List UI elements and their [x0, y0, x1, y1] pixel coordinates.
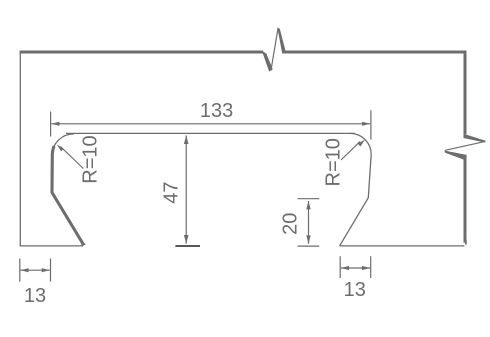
channel right wall [340, 154, 372, 246]
svg-text:R=10: R=10 [322, 138, 344, 186]
svg-text:13: 13 [24, 285, 46, 307]
dimension 20 line [306, 201, 310, 244]
dimension 13 right line [341, 266, 370, 270]
channel right fillet R=10 [350, 133, 371, 154]
channel left wall (thin contour) [52, 155, 83, 245]
outer right edge (thick, with break gap) [465, 51, 467, 245]
radius label R=10 left leader [57, 144, 84, 168]
radius label R=10 right leader [341, 139, 365, 160]
svg-text:20: 20 [280, 213, 302, 235]
dimension 133 extension tick left [50, 112, 52, 137]
svg-text:133: 133 [200, 100, 233, 122]
outer bottom edge left segment [20, 245, 83, 247]
dimension 13 left line [20, 268, 50, 272]
channel top surface line [66, 132, 355, 134]
dimension 13 left value label [24, 285, 46, 307]
dimension 133 value label [200, 100, 233, 122]
dimension 133 extension tick right [370, 110, 372, 139]
radius label R=10 left (rotated) [79, 135, 101, 183]
channel left fillet R=10 (thin contour) [52, 134, 74, 155]
dimension 47 bottom reference tick [175, 245, 200, 247]
dimension 20 extension tick bottom [298, 245, 320, 247]
dimension 13 right extension ticks [340, 256, 371, 278]
dimension 13 left extension ticks [20, 259, 51, 282]
outer left edge [19, 52, 21, 247]
break symbol on top edge [262, 27, 286, 71]
svg-text:R=10: R=10 [79, 135, 101, 183]
outer bottom edge right segment [340, 245, 465, 247]
outer top edge (thick, with break gap) [20, 51, 467, 54]
channel left wall thick section edge [52, 146, 86, 246]
svg-text:13: 13 [344, 279, 366, 301]
break symbol on right edge [444, 134, 486, 160]
dimension 47 value label (rotated) [160, 181, 182, 203]
svg-text:47: 47 [160, 181, 182, 203]
dimension 133 line [51, 122, 370, 126]
dimension 47 line [184, 135, 189, 244]
dimension 20 value label (rotated) [280, 213, 302, 235]
dimension 20 extension tick top [298, 198, 320, 200]
radius label R=10 right (rotated) [322, 138, 344, 186]
dimension 13 right value label [344, 279, 366, 301]
